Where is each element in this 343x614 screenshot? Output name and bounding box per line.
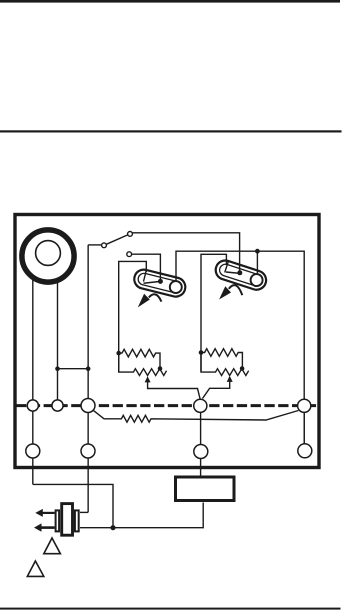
resistor R3 (fixed, right) (201, 349, 242, 369)
top rule (0, 0, 340, 3)
junction dot (158, 366, 163, 371)
wire: SW2 right contact drop (256, 251, 258, 278)
SW2 rotation arrow (219, 285, 242, 299)
SW1 center contact dot (158, 279, 163, 284)
resistor R1 (fixed, left) (119, 349, 160, 368)
gas valve V1 (56, 504, 79, 536)
switch upper contact (128, 232, 133, 237)
warning triangle 1 (44, 538, 61, 554)
terminal C (194, 445, 208, 459)
wire: bell left leg to terminal A (32, 268, 34, 484)
terminal 5 (298, 399, 311, 412)
junction dot (240, 366, 245, 371)
SW1 electrode (144, 281, 161, 283)
relay box K1 (176, 477, 235, 501)
terminal 3 (81, 399, 95, 413)
wire: terminal 4 to relay (200, 406, 202, 476)
junction dot (55, 366, 60, 371)
SW2 right contact (251, 274, 263, 286)
SW1 rotation arrow (138, 294, 162, 308)
mercury switch SW1 body (132, 268, 187, 299)
valve flow arrow lower (34, 523, 55, 531)
terminal A (26, 444, 40, 458)
switch pivot contact (102, 243, 107, 248)
resistor R5 with wire from terminal 3 to terminal 5 (92, 410, 298, 423)
R4 wiper arrow to terminal 4 (203, 376, 233, 399)
SW2 electrode (226, 272, 240, 273)
terminal D (298, 444, 312, 458)
wire: bell right leg to terminal 2 (57, 268, 59, 401)
wire: terminal B to valve upper port (80, 511, 88, 513)
wire: SW1 left electrode to left resistor node (119, 261, 147, 372)
wire: switch pivot down to terminal B and gas valve (87, 245, 89, 513)
heat anticipator R2 (adjustable, left) (119, 353, 167, 375)
wire: SW1 right contact to SW2 right contact to terminal 5 (176, 251, 304, 445)
terminal 2 (52, 400, 63, 411)
mercury switch SW2 body (213, 258, 268, 292)
wire: lower contact to SW1 center electrode (132, 254, 161, 281)
SW2 center contact dot (237, 270, 242, 275)
terminal 4 (194, 399, 207, 412)
R2 wiper arrow to terminal 4 (145, 376, 201, 399)
bottom rule (0, 608, 341, 610)
heat anticipator R4 (adjustable, right) (201, 353, 249, 376)
wire: pivot to vertical (88, 244, 102, 246)
thermostat case outline (15, 215, 319, 468)
terminal 1 (27, 400, 38, 411)
middle rule (0, 130, 342, 132)
wire: SW2 left electrode to right resistor node (201, 254, 226, 371)
junction dot (199, 350, 204, 355)
wire: valve lower port to relay (80, 503, 203, 528)
switch blade (104, 234, 130, 245)
dashed base line (16, 404, 318, 407)
wire: top contact to SW2 center electrode (132, 233, 239, 273)
wire: terminal 5 drop to terminal D (303, 406, 305, 445)
bimetal coil B1 (22, 230, 74, 282)
switch lower contact (127, 252, 132, 257)
junction dot (86, 366, 91, 371)
junction dot (255, 249, 260, 254)
warning triangle 2 (27, 561, 44, 576)
valve flow arrow upper (35, 509, 54, 517)
junction dot (110, 525, 115, 530)
junction dot (116, 351, 121, 356)
SW1 right contact (170, 281, 182, 293)
wire: terminal A to valve circuit (33, 484, 113, 527)
terminal B (81, 444, 95, 458)
wire: jumper between legs (58, 368, 89, 370)
